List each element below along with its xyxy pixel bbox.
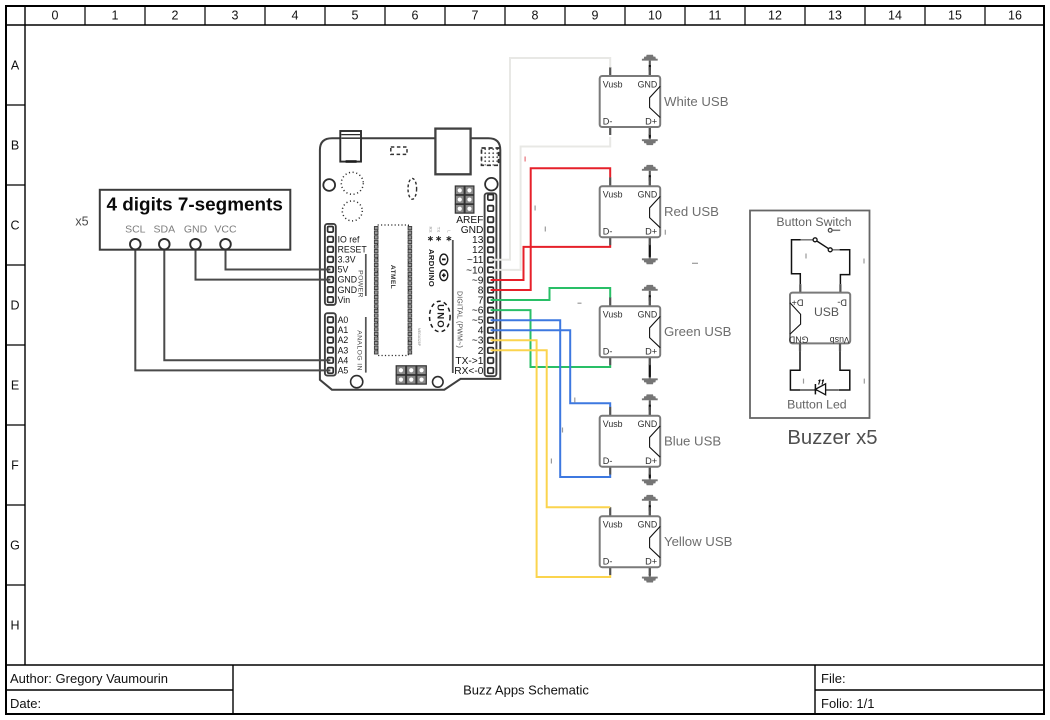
svg-text:Buzzer x5: Buzzer x5 bbox=[787, 427, 877, 449]
svg-text:x5: x5 bbox=[75, 215, 88, 229]
svg-text:14: 14 bbox=[888, 9, 902, 23]
svg-text:6: 6 bbox=[412, 9, 419, 23]
svg-text:MEGA328P: MEGA328P bbox=[417, 328, 421, 347]
svg-text:Red USB: Red USB bbox=[664, 204, 719, 219]
svg-text:RESET: RESET bbox=[338, 244, 368, 254]
svg-text:Vusb: Vusb bbox=[603, 190, 623, 200]
svg-text:4 digits 7-segments: 4 digits 7-segments bbox=[107, 194, 283, 215]
svg-text:Button Led: Button Led bbox=[787, 398, 847, 412]
svg-text:GND: GND bbox=[184, 224, 208, 236]
svg-text:Vusb: Vusb bbox=[603, 520, 623, 530]
svg-text:Yellow USB: Yellow USB bbox=[664, 534, 733, 549]
svg-text:Vin: Vin bbox=[338, 295, 350, 305]
svg-text:10: 10 bbox=[648, 9, 662, 23]
svg-text:5: 5 bbox=[352, 9, 359, 23]
svg-text:3.3V: 3.3V bbox=[338, 254, 356, 264]
svg-text:D-: D- bbox=[603, 227, 613, 237]
svg-text:Buzz Apps Schematic: Buzz Apps Schematic bbox=[463, 683, 589, 698]
svg-text:A3: A3 bbox=[338, 345, 349, 355]
svg-text:GND: GND bbox=[338, 285, 358, 295]
svg-text:D+: D+ bbox=[645, 227, 657, 237]
svg-text:E: E bbox=[11, 379, 19, 393]
svg-text:Vusb: Vusb bbox=[603, 310, 623, 320]
svg-text:Green USB: Green USB bbox=[664, 324, 732, 339]
svg-text:IO ref: IO ref bbox=[338, 234, 360, 244]
svg-text:D-: D- bbox=[603, 117, 613, 127]
svg-text:A: A bbox=[11, 59, 20, 73]
svg-text:SCL: SCL bbox=[125, 224, 146, 236]
svg-text:A4: A4 bbox=[338, 355, 349, 365]
svg-text:13: 13 bbox=[828, 9, 842, 23]
svg-text:D+: D+ bbox=[645, 557, 657, 567]
svg-text:9: 9 bbox=[592, 9, 599, 23]
svg-text:F: F bbox=[11, 459, 19, 473]
svg-text:D+: D+ bbox=[791, 298, 803, 308]
svg-text:3: 3 bbox=[232, 9, 239, 23]
svg-text:ATMEL: ATMEL bbox=[389, 265, 396, 289]
svg-text:GND: GND bbox=[638, 419, 658, 429]
svg-text:15: 15 bbox=[948, 9, 962, 23]
svg-text:File:: File: bbox=[821, 671, 846, 686]
svg-text:White USB: White USB bbox=[664, 94, 729, 109]
svg-text:5V: 5V bbox=[338, 264, 349, 274]
svg-text:1: 1 bbox=[112, 9, 119, 23]
svg-text:Date:: Date: bbox=[10, 696, 41, 711]
svg-text:POWER: POWER bbox=[357, 270, 364, 298]
svg-text:12: 12 bbox=[768, 9, 782, 23]
svg-text:2: 2 bbox=[172, 9, 179, 23]
svg-text:TX: TX bbox=[436, 227, 441, 233]
svg-text:7: 7 bbox=[472, 9, 479, 23]
svg-text:D+: D+ bbox=[645, 117, 657, 127]
svg-text:Vusb: Vusb bbox=[603, 80, 623, 90]
svg-text:H: H bbox=[10, 619, 19, 633]
svg-text:Blue USB: Blue USB bbox=[664, 434, 721, 449]
svg-text:GND: GND bbox=[638, 520, 658, 530]
svg-text:D+: D+ bbox=[645, 456, 657, 466]
svg-text:D-: D- bbox=[603, 347, 613, 357]
svg-text:11: 11 bbox=[709, 9, 722, 23]
svg-text:A1: A1 bbox=[338, 325, 349, 335]
svg-text:RX: RX bbox=[428, 226, 433, 232]
svg-text:GND: GND bbox=[638, 80, 658, 90]
svg-text:A2: A2 bbox=[338, 335, 349, 345]
svg-text:B: B bbox=[11, 139, 19, 153]
svg-text:G: G bbox=[10, 539, 20, 553]
svg-text:GND: GND bbox=[789, 335, 809, 345]
svg-text:16: 16 bbox=[1008, 9, 1022, 23]
svg-text:USB: USB bbox=[814, 305, 839, 319]
svg-text:RX<-0: RX<-0 bbox=[454, 366, 483, 377]
svg-text:D+: D+ bbox=[645, 347, 657, 357]
svg-text:A5: A5 bbox=[338, 365, 349, 375]
svg-text:VCC: VCC bbox=[214, 224, 237, 236]
svg-text:DIGITAL (PWM~): DIGITAL (PWM~) bbox=[455, 291, 462, 348]
svg-text:D-: D- bbox=[603, 557, 613, 567]
svg-text:Vusb: Vusb bbox=[830, 335, 850, 345]
svg-text:ANALOG IN: ANALOG IN bbox=[355, 330, 362, 371]
svg-text:UNO: UNO bbox=[434, 304, 445, 329]
svg-text:GND: GND bbox=[638, 190, 658, 200]
svg-text:Author: Gregory Vaumourin: Author: Gregory Vaumourin bbox=[10, 671, 168, 686]
svg-text:8: 8 bbox=[532, 9, 539, 23]
svg-text:Folio: 1/1: Folio: 1/1 bbox=[821, 696, 874, 711]
svg-text:D-: D- bbox=[603, 456, 613, 466]
svg-text:Vusb: Vusb bbox=[603, 419, 623, 429]
svg-text:ARDUINO: ARDUINO bbox=[427, 249, 436, 287]
svg-text:D: D bbox=[10, 299, 19, 313]
svg-text:SDA: SDA bbox=[154, 224, 176, 236]
svg-text:C: C bbox=[10, 219, 19, 233]
svg-text:A0: A0 bbox=[338, 315, 349, 325]
svg-text:GND: GND bbox=[338, 275, 358, 285]
svg-text:0: 0 bbox=[52, 9, 59, 23]
svg-text:4: 4 bbox=[292, 9, 299, 23]
svg-text:Button Switch: Button Switch bbox=[776, 215, 851, 229]
svg-text:GND: GND bbox=[638, 310, 658, 320]
